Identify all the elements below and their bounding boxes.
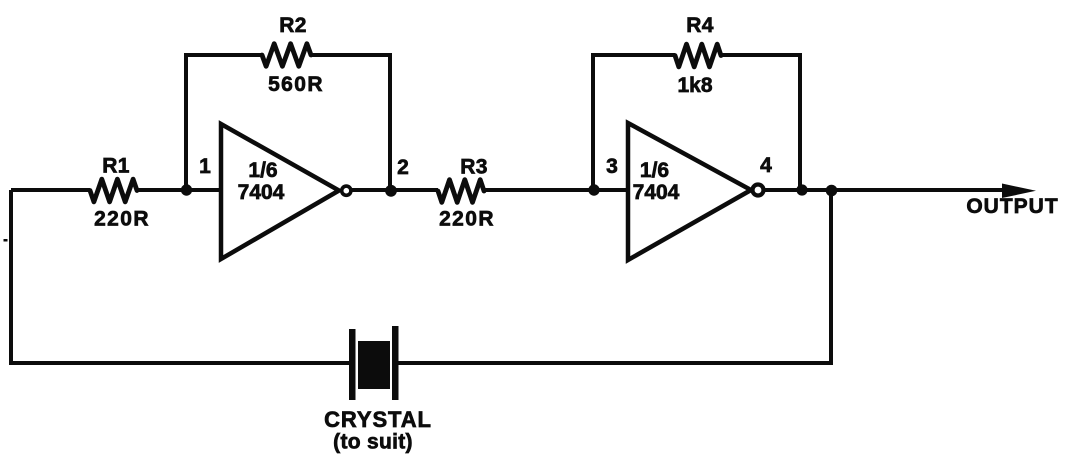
- svg-text:220R: 220R: [439, 208, 495, 231]
- svg-text:R1: R1: [102, 155, 129, 178]
- svg-text:220R: 220R: [94, 208, 150, 231]
- svg-text:1/6: 1/6: [640, 159, 669, 182]
- svg-text:1: 1: [199, 155, 211, 178]
- svg-text:OUTPUT: OUTPUT: [966, 195, 1058, 218]
- svg-text:7404: 7404: [238, 181, 285, 204]
- svg-text:R4: R4: [686, 14, 713, 37]
- svg-text:1/6: 1/6: [248, 159, 277, 182]
- svg-text:CRYSTAL: CRYSTAL: [324, 407, 432, 432]
- svg-text:3: 3: [606, 155, 618, 178]
- svg-text:1k8: 1k8: [677, 74, 712, 97]
- svg-text:7404: 7404: [633, 181, 680, 204]
- svg-text:560R: 560R: [268, 73, 324, 96]
- svg-text:R2: R2: [279, 14, 306, 37]
- svg-text:(to suit): (to suit): [333, 431, 413, 454]
- svg-text:2: 2: [397, 156, 409, 179]
- svg-text:R3: R3: [460, 156, 487, 179]
- svg-text:4: 4: [760, 154, 772, 177]
